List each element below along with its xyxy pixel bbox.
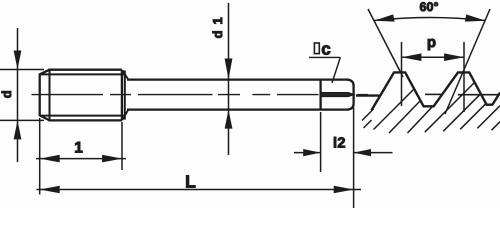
section hatching of thread profile detail [362, 82, 500, 133]
center point on square end [321, 93, 354, 97]
tap front end face vertical [39, 74, 41, 115]
dimension l2 extension line right [353, 107, 355, 208]
dimension p arrow right [444, 53, 464, 61]
dimension d arrow top [14, 51, 22, 70]
60 degree flank extension left [368, 9, 403, 77]
dimension p extension line left [401, 42, 403, 106]
thread run-out vertical A [121, 70, 123, 121]
svg-text:1: 1 [74, 140, 83, 157]
dimension l1 extension line right [121, 122, 123, 170]
60 degree arc arrow right [465, 14, 486, 21]
dimension l2 tail right [354, 152, 393, 154]
leader shoulder for square c [309, 56, 340, 58]
dimension d1 arrow top [225, 59, 233, 80]
dimension d arrow bottom [14, 121, 22, 140]
svg-text:L: L [185, 172, 196, 192]
dimension L line [37, 189, 362, 191]
lead chamfer end vertical [49, 70, 51, 121]
dimension L arrow left [40, 186, 60, 194]
svg-text:p: p [427, 34, 436, 51]
thread crest top line [49, 69, 122, 71]
thread profile outline [372, 72, 500, 110]
dimension l2 extension line left [320, 112, 322, 172]
crest line right portion [458, 94, 500, 96]
dimension d extension line top [0, 69, 44, 71]
thread run-out vertical B [124, 71, 126, 120]
dimension l2 arrow left [303, 149, 321, 156]
dimension d line [17, 28, 19, 162]
dimension d1 line [228, 3, 230, 155]
centerline (tap axis, dash-dot) [32, 94, 369, 96]
lead chamfer top-left [39, 70, 50, 75]
thread profile crest line left [356, 94, 381, 96]
neck chamfer bottom [123, 110, 129, 120]
dimension d1 arrow bottom [225, 110, 233, 129]
dimension L arrow right [334, 186, 354, 194]
lead chamfer bottom-left [39, 115, 50, 121]
svg-text:d1: d1 [210, 11, 225, 38]
dimension d extension line bottom [0, 119, 44, 121]
leader line to square [332, 57, 340, 83]
dimension l1 extension line left [39, 118, 41, 195]
dimension l1 arrow left [40, 155, 60, 163]
dimension l1 line [36, 158, 126, 160]
dimension p extension line right [463, 42, 465, 112]
thread crest bottom line [49, 119, 122, 121]
dimension l2 arrow right [354, 149, 372, 156]
shank top line [127, 78, 349, 80]
dimension p arrow left [401, 53, 421, 61]
svg-text:d: d [0, 90, 14, 98]
shank bottom line [127, 108, 349, 110]
dimension l1 arrow right [102, 155, 122, 163]
square drive start vertical [319, 80, 321, 110]
thread root bottom line [40, 115, 125, 117]
svg-text:60°: 60° [420, 0, 439, 14]
svg-text:c: c [321, 40, 330, 59]
60 degree arc arrow left [374, 14, 395, 21]
neck chamfer top [123, 70, 129, 79]
rounded shank end cap [348, 80, 354, 110]
square symbol [314, 43, 319, 54]
dimension l2 tail left [294, 152, 320, 154]
crest dash in valley [425, 93, 441, 95]
dimension p line [402, 56, 465, 58]
svg-text:l2: l2 [333, 135, 346, 151]
60 degree flank extension right [445, 9, 490, 114]
thread root top line [40, 73, 125, 75]
60 degree dimension arc [375, 18, 486, 21]
